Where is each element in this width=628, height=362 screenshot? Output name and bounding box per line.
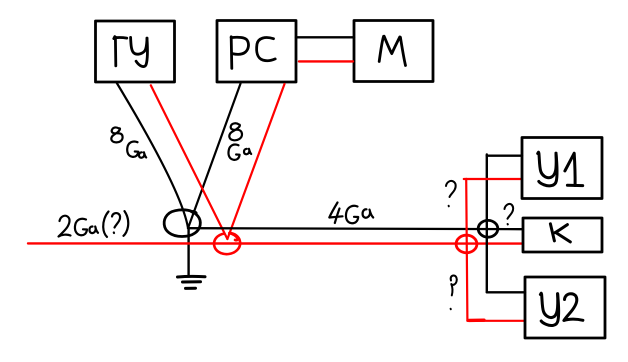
label 4Ga	[329, 203, 373, 224]
wire red vertical	[466, 179, 467, 321]
ground	[178, 276, 206, 288]
junction red ⊕	[456, 235, 477, 253]
wire ГУ to red node (red diagonal)	[151, 85, 228, 239]
label У2	[540, 293, 583, 325]
label У1	[538, 152, 583, 186]
junction black ⊕	[478, 220, 498, 237]
question mark 3	[451, 275, 457, 309]
wire РС to node (black diagonal)	[188, 84, 241, 229]
wire РС-М black	[296, 36, 354, 38]
wire red to У2	[467, 320, 525, 322]
label ГУ	[114, 37, 148, 67]
label М	[379, 36, 405, 65]
question mark 1	[446, 181, 456, 206]
label к	[550, 224, 570, 242]
box GU (ГУ generator block)	[96, 21, 175, 82]
wire ГУ to node (black diagonal)	[117, 83, 189, 229]
node red (ellipse)	[214, 233, 240, 254]
box У1	[522, 138, 602, 199]
wire long red horizontal	[28, 242, 523, 245]
label РС	[231, 37, 275, 69]
wire 4Ga horizontal	[188, 228, 523, 229]
node black (ellipse)	[164, 210, 200, 237]
wire black to У1	[487, 154, 522, 156]
wire ground vertical	[187, 228, 189, 276]
label 2Go(?)	[59, 211, 129, 237]
wire black to У2	[487, 291, 525, 293]
label 8Ga (left)	[111, 127, 146, 157]
box M (М block)	[354, 21, 433, 82]
wire РС-М red	[299, 60, 353, 62]
wire РС to red node (red diagonal)	[227, 84, 284, 239]
wire black vertical to У1/У2	[486, 155, 488, 293]
box к	[523, 218, 602, 252]
wire red to У1	[464, 178, 522, 180]
box PC (РС block)	[217, 21, 296, 83]
label 8Ga (right)	[228, 123, 251, 160]
question mark 2	[505, 204, 514, 224]
box У2	[525, 277, 605, 338]
wire red corner dash	[469, 319, 484, 323]
